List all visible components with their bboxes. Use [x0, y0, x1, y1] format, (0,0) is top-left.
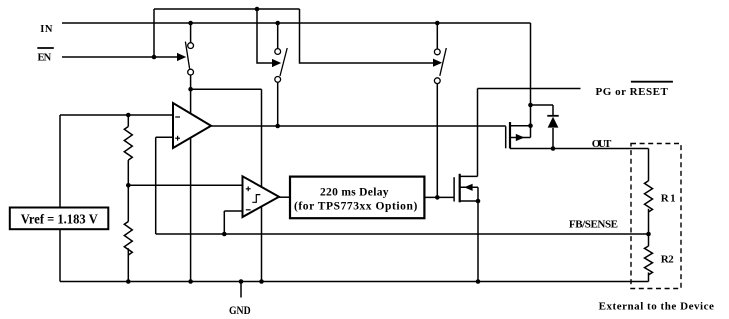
svg-text:FB/SENSE: FB/SENSE [569, 219, 618, 231]
svg-text:220 ms Delay: 220 ms Delay [320, 187, 389, 199]
svg-text:OUT: OUT [592, 138, 612, 150]
svg-text:IN: IN [40, 24, 53, 35]
svg-text:(for TPS773xx Option): (for TPS773xx Option) [294, 201, 417, 213]
svg-text:EN: EN [38, 53, 52, 64]
svg-text:GND: GND [229, 303, 251, 317]
svg-text:R2: R2 [661, 254, 675, 266]
svg-text:R1: R1 [661, 193, 676, 205]
svg-text:External to the Device: External to the Device [599, 301, 714, 313]
svg-text:PG or RESET: PG or RESET [596, 86, 669, 98]
svg-text:Vref = 1.183 V: Vref = 1.183 V [21, 212, 98, 227]
